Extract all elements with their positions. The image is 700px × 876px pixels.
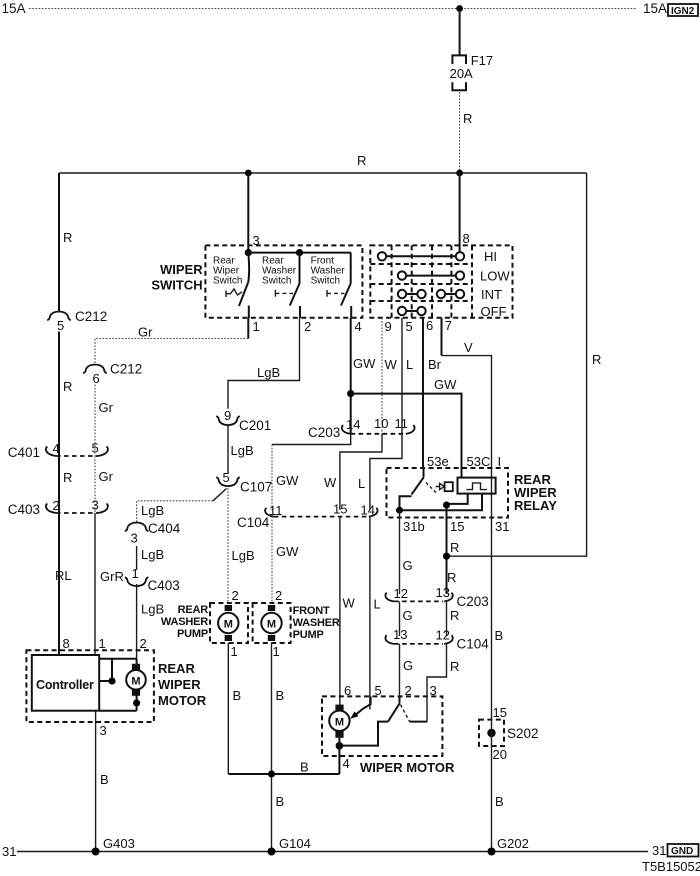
svg-text:GW: GW (276, 544, 299, 559)
rotary contacts INT row (398, 287, 502, 302)
svg-text:4: 4 (343, 756, 350, 771)
svg-text:C104: C104 (457, 637, 490, 652)
relay coil box (445, 482, 453, 491)
svg-text:15: 15 (450, 519, 464, 534)
svg-text:11: 11 (395, 416, 409, 431)
svg-text:PUMP: PUMP (177, 628, 208, 640)
wire GW C104-11 to front washer pump (271, 517, 273, 604)
wiper motor dashed box (322, 696, 442, 756)
svg-text:W: W (343, 596, 356, 611)
wire B rear pump to bus (227, 643, 229, 774)
rotary pin 9 stub (381, 318, 383, 434)
connector C403 pins 2 3 (8, 498, 108, 518)
svg-text:REAR: REAR (178, 604, 209, 616)
wire left R drop to C212 (58, 173, 60, 311)
svg-text:5: 5 (92, 441, 99, 456)
ground G403 (92, 848, 100, 856)
ground G104 (268, 848, 276, 856)
wire G C203 to C104 (399, 601, 401, 636)
ground G202 (488, 848, 496, 856)
svg-text:LOW: LOW (480, 269, 510, 284)
svg-text:WASHER: WASHER (293, 617, 340, 629)
svg-text:15: 15 (333, 502, 347, 517)
svg-text:2: 2 (53, 498, 60, 513)
svg-text:B: B (495, 628, 504, 643)
wire GW C203-14 to C104-11 (272, 434, 351, 445)
svg-text:SWITCH: SWITCH (151, 278, 202, 293)
wire LgB C107 to rear washer pump (227, 488, 229, 604)
svg-text:B: B (100, 772, 109, 787)
wire wiper motor bottom to pin4 (338, 738, 340, 774)
svg-text:12: 12 (436, 628, 450, 643)
svg-text:1: 1 (273, 644, 280, 659)
svg-text:L: L (374, 597, 381, 612)
wire switch feed bus (248, 252, 350, 254)
switch rear wiper: label (213, 256, 242, 287)
svg-text:10: 10 (374, 416, 388, 431)
svg-text:Switch: Switch (262, 276, 291, 287)
svg-text:Gr: Gr (99, 400, 114, 415)
svg-text:RELAY: RELAY (514, 498, 557, 513)
svg-text:C403: C403 (148, 578, 180, 593)
connector C104 pins 11 15 14 (237, 502, 378, 531)
wire R relay15 to junction (446, 518, 448, 595)
svg-text:L: L (406, 357, 413, 372)
svg-text:8: 8 (63, 636, 70, 651)
svg-text:31b: 31b (403, 519, 425, 534)
svg-text:W: W (324, 475, 337, 490)
wire Gr C401 to C403 (94, 456, 96, 513)
svg-text:2: 2 (232, 588, 239, 603)
wiper switch dashed box (205, 245, 362, 317)
junction dot B bus (268, 770, 275, 777)
svg-text:1: 1 (231, 644, 238, 659)
svg-text:4: 4 (53, 441, 60, 456)
svg-text:5: 5 (57, 318, 64, 333)
svg-text:C212: C212 (110, 362, 142, 377)
motor rear washer pump (218, 605, 238, 641)
svg-text:LgB: LgB (141, 503, 164, 518)
wire G C104 to wiper motor 2 (399, 644, 401, 704)
switch front washer: blade and linkage (327, 253, 351, 318)
svg-text:C212: C212 (75, 309, 107, 324)
svg-text:FRONT: FRONT (293, 605, 330, 617)
switch front washer: label (311, 256, 346, 287)
svg-text:V: V (464, 340, 473, 355)
svg-text:WIPER: WIPER (158, 677, 201, 692)
label REAR WIPER MOTOR (158, 661, 207, 708)
svg-text:9: 9 (385, 319, 392, 334)
relay coil arrow (436, 483, 445, 489)
connector C203 pins 14 10 11 (308, 416, 415, 440)
svg-text:C401: C401 (8, 445, 40, 460)
node GND box (668, 844, 699, 857)
svg-text:1: 1 (253, 319, 260, 334)
svg-text:G: G (403, 608, 413, 623)
svg-text:R: R (450, 659, 459, 674)
wiper motor wiper arm pin5 arrow (350, 696, 370, 718)
wire RL C403 to controller pin 8 (58, 513, 60, 655)
svg-text:C404: C404 (148, 521, 181, 536)
svg-text:12: 12 (394, 586, 408, 601)
svg-text:R: R (63, 230, 72, 245)
wire V pin7 to relay I (442, 356, 492, 720)
svg-text:1: 1 (99, 636, 106, 651)
svg-text:C201: C201 (239, 418, 271, 433)
svg-text:5: 5 (406, 319, 413, 334)
wire LgB C201 to C107 (227, 426, 229, 474)
svg-text:2: 2 (304, 319, 311, 334)
wire branch C107 to left LgB column (213, 489, 227, 501)
svg-text:LgB: LgB (141, 547, 164, 562)
svg-text:15A: 15A (2, 1, 26, 16)
svg-text:LgB: LgB (232, 548, 255, 563)
svg-text:13: 13 (393, 627, 407, 642)
svg-text:C107: C107 (240, 480, 272, 495)
svg-text:R: R (63, 470, 72, 485)
rotary contacts HI row (378, 249, 497, 264)
wire B bus horizontal (228, 773, 339, 775)
svg-text:7: 7 (445, 318, 452, 333)
svg-text:B: B (233, 688, 242, 703)
label REAR WIPER RELAY (514, 472, 557, 513)
svg-text:G: G (403, 658, 413, 673)
connector C107 pin 5 (216, 470, 272, 495)
label REAR WASHER PUMP (161, 604, 208, 640)
svg-text:R: R (357, 153, 366, 168)
connector C212 pin 6 (83, 362, 142, 387)
wire R C401 to C403 (58, 456, 60, 513)
rotary pin 6 stub (422, 318, 424, 468)
svg-text:WIPER MOTOR: WIPER MOTOR (360, 760, 455, 775)
svg-text:M: M (131, 675, 140, 687)
wire 15A bus (29, 8, 637, 10)
svg-text:9: 9 (224, 408, 231, 423)
switch rear washer: blade and linkage (275, 253, 300, 318)
svg-text:15: 15 (493, 705, 507, 720)
connector C403 pin 1 (125, 566, 180, 593)
svg-text:F17: F17 (471, 53, 493, 68)
svg-text:31: 31 (495, 519, 509, 534)
wire B S202 to G202 (491, 746, 493, 852)
connector C404 pin 3 (125, 521, 181, 546)
svg-text:6: 6 (426, 318, 433, 333)
wire W C203-10 to C104-15 (340, 434, 382, 510)
connector C203 pins 12 13 (385, 585, 488, 609)
fuse F17 20A (450, 53, 494, 90)
controller internal wiring (99, 659, 140, 711)
svg-text:53e: 53e (427, 454, 449, 469)
svg-text:GW: GW (276, 473, 299, 488)
relay pin15 link from timer (443, 494, 468, 518)
svg-text:3: 3 (92, 498, 99, 513)
svg-text:G: G (403, 558, 413, 573)
node IGN2 box (668, 4, 698, 17)
svg-text:Switch: Switch (213, 276, 242, 287)
front washer pump box (253, 603, 291, 643)
relay timer box with pulse symbol (458, 478, 496, 494)
wire L C104-14 to wiper motor 5 (369, 517, 371, 710)
wire bus to fuse (459, 9, 461, 56)
svg-text:11: 11 (269, 503, 283, 518)
svg-text:5: 5 (223, 470, 230, 485)
svg-text:8: 8 (463, 231, 470, 246)
svg-text:HI: HI (484, 249, 497, 264)
svg-text:WIPER: WIPER (160, 262, 203, 277)
svg-text:C203: C203 (457, 594, 489, 609)
svg-text:Controller: Controller (36, 678, 94, 692)
svg-text:C403: C403 (8, 502, 40, 517)
connector C401 pins 4 5 (8, 441, 108, 461)
relay actuation dashed link (426, 483, 436, 493)
wire R C203 to C104 (446, 601, 448, 636)
svg-text:I: I (498, 454, 502, 469)
junction dot wiper motor bottom (336, 742, 344, 750)
svg-text:GW: GW (434, 377, 457, 392)
junction dot GW (347, 390, 354, 397)
svg-text:M: M (267, 619, 276, 631)
svg-text:Switch: Switch (311, 276, 340, 287)
label FRONT WASHER PUMP (293, 605, 340, 641)
junction dot rear wiper switch (245, 249, 252, 256)
wire R C104 to wiper motor 3 (427, 644, 447, 722)
wire LgB C403-1 to controller pin 2 (136, 584, 138, 664)
switch rear washer: label (262, 256, 297, 287)
connector C104 pins 13 12 (385, 627, 489, 652)
motor rear wiper M (126, 664, 146, 696)
svg-text:53C: 53C (467, 454, 491, 469)
junction dot top bus (456, 5, 463, 12)
svg-text:31: 31 (2, 844, 16, 859)
svg-text:Br: Br (428, 357, 442, 372)
wire pin8 drop to rotary switch (459, 173, 461, 252)
junction dot rear washer switch (296, 249, 303, 256)
svg-text:WASHER: WASHER (161, 616, 208, 628)
svg-text:3: 3 (100, 723, 107, 738)
wire G relay31b to C203-12 (399, 510, 401, 594)
svg-text:2: 2 (275, 588, 282, 603)
wire B front pump to G104 (271, 643, 273, 852)
svg-text:20A: 20A (450, 66, 473, 81)
svg-text:3: 3 (131, 531, 138, 546)
svg-text:R: R (592, 352, 601, 367)
rear washer pump box (210, 603, 248, 643)
wire B controller to G403 (95, 711, 97, 852)
connector C201 pin 9 (216, 408, 271, 433)
connector C212 pin 5 (47, 309, 107, 333)
svg-text:S202: S202 (507, 726, 539, 741)
svg-text:L: L (358, 476, 365, 491)
rotary pin 7 stub (441, 318, 443, 356)
svg-text:GND: GND (671, 846, 693, 857)
svg-text:20: 20 (493, 747, 507, 762)
svg-text:LgB: LgB (141, 602, 164, 617)
wire pin3 drop to wiper switch (247, 173, 249, 252)
rotary contacts OFF row (398, 304, 507, 319)
svg-text:LgB: LgB (231, 443, 254, 458)
svg-text:B: B (276, 794, 285, 809)
svg-text:15A: 15A (643, 1, 667, 16)
switch rear wiper: blade and detent (226, 253, 249, 318)
svg-text:G104: G104 (279, 836, 311, 851)
svg-text:GrR: GrR (100, 569, 124, 584)
svg-text:M: M (335, 716, 344, 728)
wiper motor park switch pin2 (339, 696, 427, 745)
wire GW switch pin4 down (350, 318, 352, 434)
wire R right vertical (450, 173, 587, 556)
svg-text:RL: RL (55, 568, 72, 583)
svg-text:T5B15052: T5B15052 (642, 859, 700, 874)
svg-text:G403: G403 (103, 836, 135, 851)
controller box (32, 655, 99, 711)
svg-text:W: W (385, 357, 398, 372)
wire L C203-11 to C104-14 (370, 434, 402, 510)
svg-text:R: R (450, 540, 459, 555)
rear wiper motor dashed box (26, 650, 153, 722)
svg-text:R: R (463, 111, 472, 126)
svg-text:PUMP: PUMP (293, 629, 324, 641)
svg-text:GW: GW (353, 356, 376, 371)
svg-text:OFF: OFF (481, 304, 507, 319)
wire LgB switch pin2 to C201 (228, 318, 300, 409)
svg-text:6: 6 (93, 371, 100, 386)
svg-text:R: R (63, 379, 72, 394)
svg-text:2: 2 (140, 636, 147, 651)
svg-text:IGN2: IGN2 (671, 6, 695, 17)
relay switch blade 53e (400, 468, 424, 510)
motor wiper M (329, 705, 349, 738)
rear wiper relay dashed box (387, 468, 509, 518)
rotary pin 5 stub (401, 318, 403, 434)
connector S202 (479, 705, 539, 762)
svg-text:31: 31 (652, 843, 666, 858)
motor front washer pump (261, 605, 281, 641)
svg-text:MOTOR: MOTOR (158, 693, 207, 708)
junction dot R bus at x248 (245, 170, 252, 177)
wire GW to relay 53C (351, 394, 462, 478)
rotary switch dashed box grid (370, 245, 512, 317)
svg-text:13: 13 (436, 585, 450, 600)
junction dot R bus at x459 (456, 170, 463, 177)
svg-text:B: B (276, 688, 285, 703)
svg-text:R: R (447, 570, 456, 585)
wire R C212 to C401, label R (58, 332, 60, 457)
svg-text:Gr: Gr (138, 325, 153, 340)
relay common bar to timer (396, 494, 482, 514)
wire Gr C212 to C401 (94, 385, 96, 457)
svg-text:14: 14 (346, 417, 360, 432)
wire LgB C404 to C403-1 (136, 546, 138, 570)
svg-text:M: M (224, 619, 233, 631)
svg-text:R: R (450, 608, 459, 623)
junction dot R (443, 553, 450, 560)
wire fuse to R bus, label R (459, 92, 461, 173)
svg-text:C104: C104 (237, 515, 270, 530)
wire R horizontal bus (59, 172, 587, 174)
svg-text:INT: INT (481, 287, 502, 302)
svg-text:4: 4 (355, 319, 362, 334)
rotary contacts LOW row (398, 269, 511, 284)
wire Gr switch pin1 to C212-6 (247, 318, 249, 339)
svg-text:Gr: Gr (99, 469, 114, 484)
svg-text:REAR: REAR (158, 661, 195, 676)
svg-text:G202: G202 (497, 836, 529, 851)
wire GrR C403 to controller pin 1 (94, 513, 96, 655)
svg-text:1: 1 (132, 566, 139, 581)
svg-text:LgB: LgB (257, 365, 280, 380)
svg-text:B: B (300, 760, 309, 775)
svg-text:B: B (495, 794, 504, 809)
svg-text:C203: C203 (308, 425, 340, 440)
svg-text:14: 14 (361, 503, 375, 518)
wire W C104-15 to wiper motor 6 (339, 517, 341, 705)
